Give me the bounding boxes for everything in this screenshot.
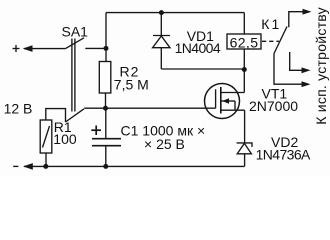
switch SA1 pole 2 blade: [66, 109, 85, 122]
switch SA1 pole 1 blade: [66, 38, 85, 49]
svg-text:62,5: 62,5: [230, 34, 259, 50]
diode VD1: [153, 13, 170, 69]
node VD1 top junction: [159, 10, 164, 15]
node B junction dot (gate net): [103, 106, 108, 111]
svg-text:1N4736А: 1N4736А: [256, 146, 311, 162]
C1 polarity plus mark: [91, 126, 101, 136]
node C1 bottom junction: [103, 164, 108, 169]
relay coil K1 box: [227, 34, 261, 49]
zener diode VD2: [237, 110, 252, 166]
transistor VT1 MOSFET: [205, 84, 245, 119]
wire SA1 pole 2 fixed contact to node B: [84, 107, 105, 109]
plus supply terminal: [13, 45, 20, 52]
minus supply terminal: [13, 165, 18, 167]
SA1 mechanical linkage: [72, 39, 75, 112]
wire bottom rail: [46, 165, 245, 167]
wire SA1 pole1 fixed contact to node A: [85, 47, 106, 49]
wire gate net from node B to gate: [106, 107, 216, 109]
relay contact K1.1 blade: [274, 27, 287, 54]
wire coil junction down to VT1 drain: [243, 69, 245, 93]
svg-text:1N4004: 1N4004: [175, 40, 221, 56]
svg-text:100: 100: [53, 131, 77, 147]
wire top rail corner down to relay coil: [243, 13, 245, 34]
node R1 bottom junction: [43, 164, 48, 169]
svg-text:К1: К1: [261, 16, 281, 32]
arrow to plus terminal: [23, 45, 66, 52]
node A junction dot (R2 top): [104, 46, 109, 51]
wire node A up to top rail: [105, 13, 107, 49]
svg-text:12 В: 12 В: [4, 100, 33, 116]
wire VD1 anode to coil bottom net: [161, 68, 244, 70]
svg-text:SA1: SA1: [62, 24, 89, 40]
svg-text:2N7000: 2N7000: [249, 98, 298, 114]
resistor R2: [99, 48, 111, 108]
wire contact common terminal with arrow: [274, 54, 311, 88]
resistor R1: [40, 120, 52, 166]
capacitor C1: [92, 108, 121, 166]
wire contact lower fixed terminal with arrow: [290, 52, 311, 73]
svg-text:× 25 В: × 25 В: [144, 136, 185, 152]
switch SA1 pole 2 wiring: [46, 109, 66, 122]
wire VT1 drain lead: [221, 92, 245, 94]
wire contact top terminal with arrow: [289, 9, 312, 27]
wire top rail: [106, 12, 244, 14]
svg-text:К исп. устройству: К исп. устройству: [313, 7, 329, 125]
arrow to minus terminal: [23, 163, 46, 170]
wire coil bottom lead: [243, 49, 245, 69]
svg-text:7,5 М: 7,5 М: [114, 76, 149, 92]
node coil bottom junction: [242, 67, 247, 72]
dashed link K1 coil to contact: [262, 40, 279, 42]
